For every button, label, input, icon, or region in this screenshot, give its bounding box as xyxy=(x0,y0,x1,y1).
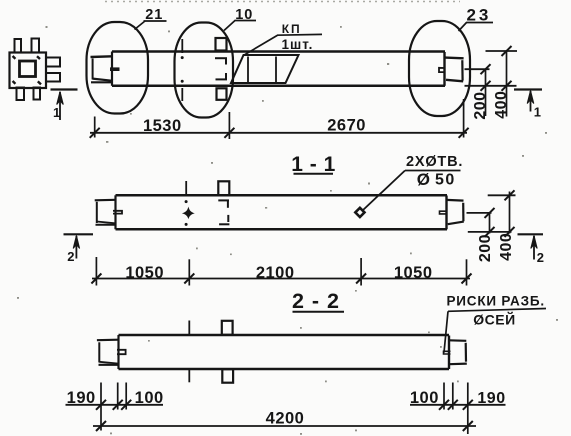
svg-text:2 - 2: 2 - 2 xyxy=(292,289,340,313)
svg-text:2: 2 xyxy=(67,249,74,264)
svg-text:190: 190 xyxy=(67,389,96,407)
svg-text:23: 23 xyxy=(466,6,491,25)
svg-text:190: 190 xyxy=(477,390,505,407)
svg-text:400: 400 xyxy=(498,233,515,261)
svg-text:1: 1 xyxy=(534,105,541,120)
svg-text:1050: 1050 xyxy=(125,264,164,282)
svg-text:2ХØТВ.: 2ХØТВ. xyxy=(406,154,463,170)
svg-text:1: 1 xyxy=(53,105,60,120)
svg-text:2100: 2100 xyxy=(256,264,295,282)
svg-text:50: 50 xyxy=(435,172,456,189)
svg-text:2670: 2670 xyxy=(327,117,366,135)
svg-text:1шт.: 1шт. xyxy=(282,37,314,52)
svg-text:21: 21 xyxy=(145,7,163,23)
svg-text:200: 200 xyxy=(472,91,489,119)
svg-text:РИСКИ РАЗБ.: РИСКИ РАЗБ. xyxy=(446,294,544,309)
svg-text:Ø: Ø xyxy=(417,170,430,189)
svg-text:400: 400 xyxy=(493,91,510,119)
svg-text:100: 100 xyxy=(135,389,164,407)
svg-text:КП: КП xyxy=(282,22,302,36)
svg-text:1050: 1050 xyxy=(394,264,433,282)
svg-text:10: 10 xyxy=(235,7,253,23)
svg-text:200: 200 xyxy=(477,234,494,262)
svg-text:ØСЕЙ: ØСЕЙ xyxy=(473,311,515,328)
svg-text:1 - 1: 1 - 1 xyxy=(291,153,336,176)
svg-text:2: 2 xyxy=(537,250,544,265)
svg-text:1530: 1530 xyxy=(143,117,182,135)
svg-text:4200: 4200 xyxy=(266,409,305,427)
svg-text:100: 100 xyxy=(410,389,439,407)
